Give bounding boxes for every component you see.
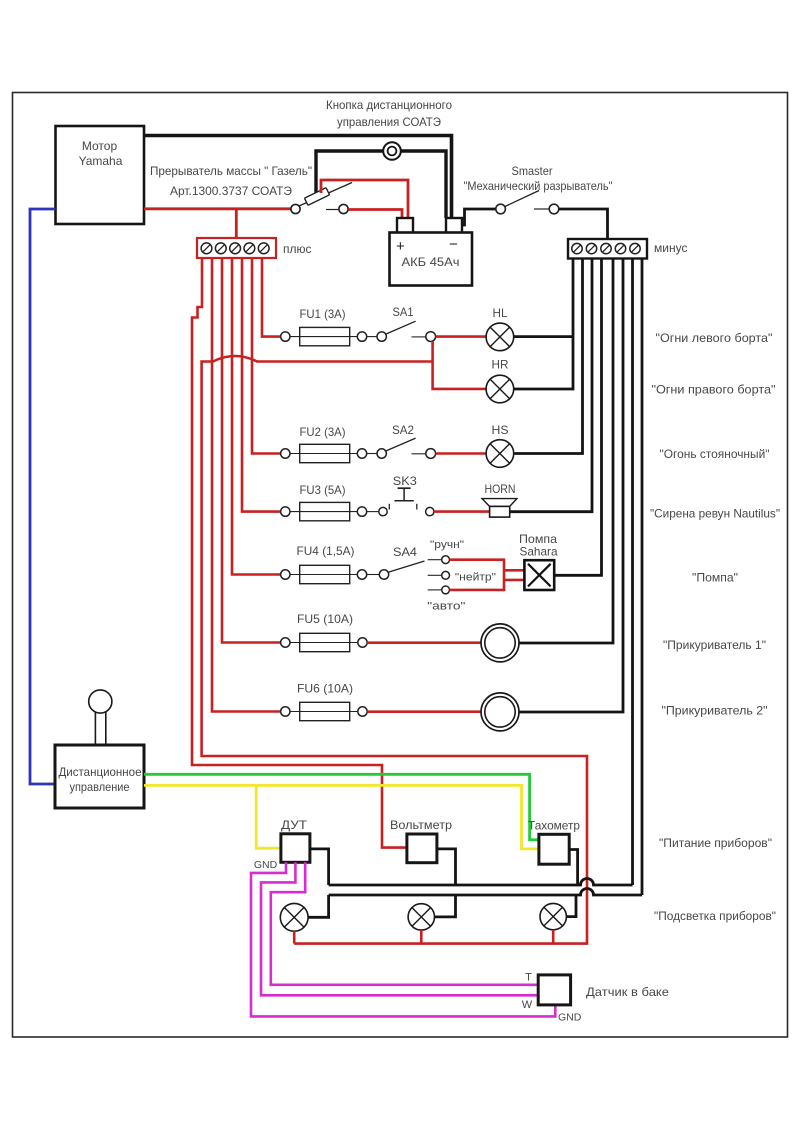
wire: minus bus 5 to socket 1 (black) [519,258,613,643]
svg-text:"Огни правого борта": "Огни правого борта" [652,383,776,397]
wire: green tachometer signal [144,774,539,840]
backlight lamp EL3 [540,903,566,929]
wire: plus bus 4 to FU4 (red) [232,258,281,575]
svg-text:Yamaha: Yamaha [79,154,123,168]
wire: FU6 to socket 2 (red) [367,710,481,713]
wire: SA2 output to HS (red) [436,452,486,455]
svg-text:FU6 (10А): FU6 (10А) [297,682,353,696]
wire: fuel gauge GND (magenta) [251,862,555,1016]
fuel gauge ДУТ [281,818,310,862]
Smaster mechanical breaker switch QS2 [496,191,559,214]
pump box M2 Помпа Sahara [519,532,558,590]
wire: SA1 output to HL (red) [436,335,486,338]
switch SA1 [367,305,436,342]
switch SA2 [367,423,436,458]
svg-text:"Сирена ревун Nautilus": "Сирена ревун Nautilus" [650,507,780,521]
wire: SA1 output down to HR (red) [433,341,486,389]
svg-text:"Огонь стояночный": "Огонь стояночный" [660,447,770,461]
fuse FU5 (10A) [281,612,368,652]
wire: backlight return bus with crossover (black) [329,889,642,896]
wire: plus bus 7 to FU1 (red) [262,258,281,337]
svg-text:SK3: SK3 [393,474,417,488]
svg-text:HR: HR [492,358,509,372]
lamp HR [486,358,514,403]
svg-text:"Подсветка приборов": "Подсветка приборов" [654,909,776,923]
svg-text:Датчик в баке: Датчик в баке [586,985,669,999]
wire: SA4 авто to pump (red) [450,589,505,592]
wire: remote button circuit left leg (black) [316,151,383,196]
minus terminal strip XT2 (минус) [568,239,647,259]
wire: yellow branch to fuel gauge [256,785,281,848]
wire: lamp EL2 to red backlight feed [420,930,423,944]
wire: branch down to plus terminal strip (red) [235,209,238,239]
svg-text:"авто": "авто" [427,601,465,613]
wire: SA4 ручн to pump (red) [450,558,505,561]
svg-text:−: − [449,236,458,253]
wire: plus bus 3 to FU5 (red) [222,258,281,643]
wire: remote button circuit right leg to battery minus (black) [401,151,446,218]
wire: minus bus 7 instrument power return (black) [631,258,634,885]
wire: minus bus 3 to HORN (black) [510,258,592,512]
wire: minus bus 4 to pump (black) [554,258,601,575]
wire: plus bus 1 to voltmeter feed (red) [192,258,407,848]
svg-text:GND: GND [254,859,278,871]
wire: breaker blade to battery plus (red) [321,180,408,218]
speaker HORN [482,482,517,517]
backlight lamp EL2 [408,904,434,930]
label: Smaster "Механический разрыватель" [464,164,613,193]
svg-text:SA2: SA2 [392,423,414,437]
svg-text:Smaster: Smaster [512,164,553,178]
svg-text:FU5 (10А): FU5 (10А) [297,612,353,626]
wire: lamp EL1 to backlight bus (black) [308,895,329,917]
svg-text:"Помпа": "Помпа" [692,571,738,585]
svg-text:"Прикуриватель 1": "Прикуриватель 1" [663,638,766,652]
wire: FU5 to socket 1 (red) [367,641,481,644]
svg-text:HL: HL [493,306,508,320]
backlight lamp EL1 [280,903,308,931]
svg-text:+: + [396,238,405,255]
wire: breaker output to battery plus (red) [348,210,402,219]
wire: lamp EL1 to red backlight feed [293,931,296,943]
svg-text:Кнопка дистанционного: Кнопка дистанционного [326,98,452,112]
mass breaker switch QS1 (Прерыватель массы) [291,183,352,214]
wire: voltmeter return to power bus (black) [437,849,456,885]
wire: pump feed verticals (red) [503,558,506,591]
lamp HL [486,306,514,351]
svg-text:FU4 (1,5А): FU4 (1,5А) [297,544,355,558]
svg-text:АКБ 45Ач: АКБ 45Ач [402,255,460,269]
svg-text:HORN: HORN [485,482,516,496]
fuse FU2 (3A) [281,425,367,463]
wire: lights junction to instrument backlight feed with crossover arc (red) [202,356,587,944]
fuse FU6 (10A) [281,682,368,721]
plus terminal strip XT1 (плюс) [197,238,276,258]
wire: motor to mass breaker contact (red) [144,207,291,210]
cigarette lighter socket 1 (Прикуриватель 1) [481,624,519,662]
wire: minus bus 2 to HS (black) [514,258,582,454]
svg-text:минус: минус [654,241,687,255]
wire: minus bus 1 to HL/HR (black) [513,258,573,389]
lamp HS [486,423,514,467]
wire: battery minus to Smaster switch (black) [461,209,496,225]
wire: pump input stubs (red) [504,570,524,580]
wire: yellow gauge signal [144,785,539,849]
wire: instrument power bus with crossover (black) [329,879,633,885]
svg-text:Мотор: Мотор [82,139,118,153]
voltmeter (Вольтметр) [390,818,452,863]
tachometer (Тахометр) [528,819,580,865]
wire: fuel gauge T signal (magenta) [271,862,539,985]
svg-text:T: T [525,972,532,984]
wire: motor top to battery minus terminal (black) [144,136,452,219]
svg-text:Sahara: Sahara [520,545,558,559]
svg-text:HS: HS [492,423,509,437]
switch SA4 three position [367,539,496,613]
wire: fuel gauge W signal (magenta) [261,862,538,995]
remote control box (Дистанционное управление) [55,690,144,808]
svg-text:SA4: SA4 [393,545,417,559]
svg-text:"Питание приборов": "Питание приборов" [659,836,772,850]
pushbutton SK3 [367,474,434,516]
wire: plus bus 6 to FU2 (red) [252,258,281,454]
svg-text:GND: GND [558,1012,582,1024]
wire: tachometer return to power bus (black) [569,850,577,886]
svg-text:управление: управление [70,780,130,794]
svg-text:Тахометр: Тахометр [528,819,580,833]
wire: minus bus 6 to socket 2 (black) [519,258,623,712]
tank sensor box (Датчик в баке) [538,975,570,1005]
svg-text:FU1 (3А): FU1 (3А) [300,307,346,321]
svg-text:Прерыватель массы " Газель": Прерыватель массы " Газель" [150,164,312,178]
wire: HL to minus bus 1 (black) [513,335,573,338]
wire: plus bus 2 to FU6 (red) [212,258,281,712]
svg-text:FU3 (5А): FU3 (5А) [300,483,346,497]
svg-text:Дистанционное: Дистанционное [59,765,142,779]
svg-text:Арт.1300.3737 СОАТЭ: Арт.1300.3737 СОАТЭ [170,184,292,198]
svg-text:"нейтр": "нейтр" [455,572,496,584]
remote control button SB (Кнопка СОАТЭ) [383,142,401,160]
svg-text:ДУТ: ДУТ [281,818,308,832]
fuse FU4 (1,5A) [281,544,367,584]
wire: SK3 to HORN (red) [434,510,489,513]
label: Кнопка дистанционного управления СОАТЭ [326,98,452,129]
fuse FU3 (5A) [281,483,367,521]
svg-text:"ручн": "ручн" [430,539,464,551]
wire: Smaster to minus terminal strip (black) [559,209,608,240]
cigarette lighter socket 2 (Прикуриватель 2) [481,693,519,731]
battery GB1 АКБ 45Ач [390,218,473,286]
wire: fuel gauge return to power bus (black) [310,849,329,885]
wire: lamp EL2 to backlight bus (black) [435,895,456,917]
svg-text:управления СОАТЭ: управления СОАТЭ [337,115,441,129]
svg-text:FU2 (3А): FU2 (3А) [300,425,346,439]
fuse FU1 (3A) [281,307,367,346]
svg-text:плюс: плюс [283,242,312,256]
wire: lamp EL3 to backlight bus (black) [566,895,576,917]
motor box M1 "Мотор Yamaha" [56,126,145,224]
wire: minus bus 8 backlight return (black) [641,258,644,895]
wire: plus bus 5 to FU3 (red) [242,258,281,512]
label: Прерыватель массы "Газель" Арт.1300.3737 СОАТЭ [150,164,312,198]
svg-text:Вольтметр: Вольтметр [390,818,452,832]
svg-text:SA1: SA1 [393,305,414,319]
wire: lamp EL3 to red backlight feed [552,930,555,944]
svg-text:"Огни левого борта": "Огни левого борта" [656,331,773,345]
svg-text:"Прикуриватель 2": "Прикуриватель 2" [662,704,768,718]
svg-text:W: W [522,999,533,1011]
wire: blue remote control to motor [30,209,56,784]
